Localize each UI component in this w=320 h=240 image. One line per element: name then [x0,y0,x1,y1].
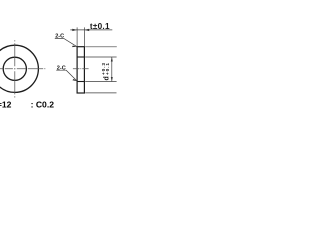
side view centerline [73,68,89,70]
side view body rectangle [77,47,84,93]
d1 dimension line [111,57,113,82]
chamfer callout 2-C upper arrowhead [72,46,77,48]
d2 extension line top (dimension cropped at right) [85,46,117,48]
svg-text:=12: =12 [0,99,12,109]
hole edge line upper (side view) [77,56,84,58]
chamfer callout 2-C lower leader [56,70,77,81]
chamfer callout 2-C upper leader [55,39,77,47]
d1 dimension arrow bottom (points down) [111,77,113,82]
svg-text:d: d [104,76,111,80]
t dimension extension line left [76,27,78,46]
d1 dimension rotated text with tolerance [101,62,111,80]
d1 dimension arrow top (points up) [111,57,113,62]
svg-text:+0.1: +0.1 [105,62,111,75]
outer circle (washer OD, front view) [0,45,38,92]
t dimension arrow right (points left at x=84.4) [84,29,89,31]
t dimension extension line right [83,27,85,46]
d1 extension line top [85,56,116,58]
d1 extension line bottom [85,81,116,83]
d2 extension line bottom (dimension cropped at right) [85,92,116,94]
svg-text:: C0.2: : C0.2 [31,99,55,109]
inner circle (washer hole d1, front view) [3,57,26,80]
horizontal centerline of front view [0,68,45,70]
hole edge line lower (side view) [77,81,84,83]
t dimension line [70,29,112,31]
chamfer callout 2-C lower arrowhead [72,79,77,81]
t dimension arrow left (points right at x=77.1) [72,29,77,31]
svg-text:t±0.1: t±0.1 [90,22,110,31]
vertical centerline of front view [14,40,16,97]
